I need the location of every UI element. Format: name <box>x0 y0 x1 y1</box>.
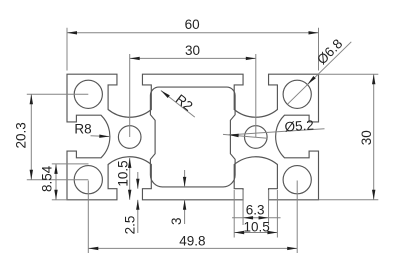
svg-text:30: 30 <box>185 43 200 58</box>
svg-text:6.3: 6.3 <box>246 203 265 218</box>
svg-text:20.3: 20.3 <box>13 122 28 148</box>
svg-text:3: 3 <box>169 218 184 226</box>
svg-text:10.5: 10.5 <box>115 160 130 186</box>
svg-text:30: 30 <box>359 130 374 145</box>
svg-text:R8: R8 <box>74 122 91 137</box>
svg-text:49.8: 49.8 <box>179 233 205 248</box>
svg-text:2.5: 2.5 <box>122 216 137 235</box>
svg-text:8.54: 8.54 <box>39 165 54 192</box>
svg-text:Ø5.2: Ø5.2 <box>284 117 314 134</box>
svg-text:60: 60 <box>185 17 200 32</box>
svg-text:10.5: 10.5 <box>243 219 269 234</box>
